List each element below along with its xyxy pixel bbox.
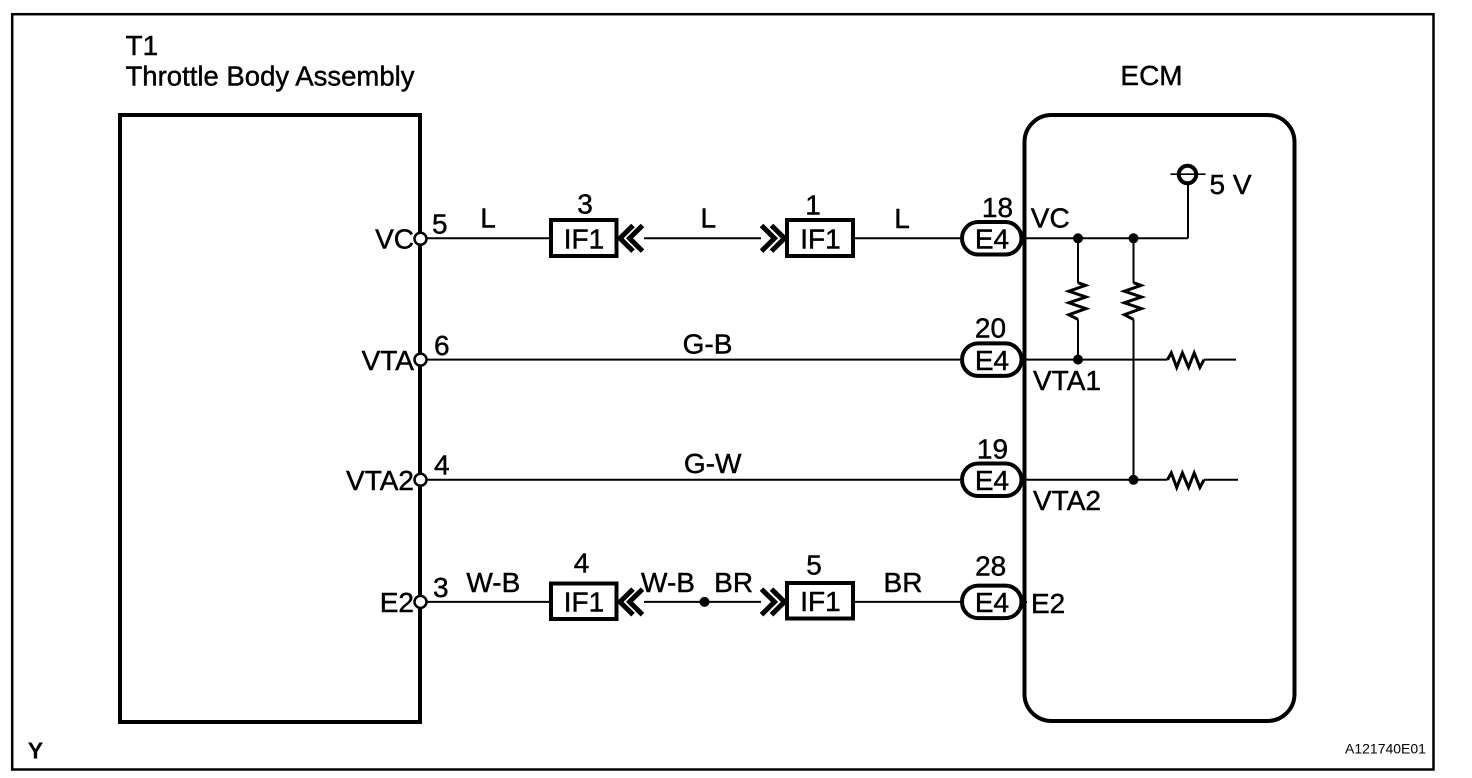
svg-text:5: 5 [806,550,822,581]
svg-text:VC: VC [1031,203,1070,234]
svg-text:4: 4 [434,450,450,481]
svg-text:E4: E4 [975,587,1009,618]
svg-text:G-B: G-B [683,329,733,360]
svg-text:ECM: ECM [1120,60,1182,91]
svg-text:5: 5 [432,209,448,240]
svg-text:BR: BR [714,567,753,598]
svg-text:G-W: G-W [684,448,742,479]
svg-text:E4: E4 [975,224,1009,255]
svg-text:Throttle Body Assembly: Throttle Body Assembly [126,60,415,91]
svg-text:IF1: IF1 [564,223,604,254]
svg-text:20: 20 [975,313,1006,344]
svg-text:E2: E2 [1031,588,1065,619]
svg-text:IF1: IF1 [800,223,840,254]
svg-text:VTA: VTA [362,345,415,376]
svg-text:Y: Y [28,738,44,764]
svg-text:3: 3 [433,572,449,603]
svg-text:A121740E01: A121740E01 [1345,741,1426,757]
svg-text:E4: E4 [975,345,1009,376]
svg-text:E4: E4 [975,465,1009,496]
svg-text:4: 4 [574,548,590,579]
svg-text:BR: BR [884,567,923,598]
svg-text:VTA2: VTA2 [1033,485,1101,516]
svg-text:5 V: 5 V [1210,169,1252,200]
svg-text:3: 3 [577,189,593,220]
svg-text:19: 19 [977,434,1008,465]
svg-text:L: L [894,203,910,234]
svg-text:IF1: IF1 [564,587,604,618]
svg-text:W-B: W-B [466,567,520,598]
svg-text:1: 1 [805,190,821,221]
svg-text:E2: E2 [380,587,414,618]
svg-text:L: L [701,203,717,234]
svg-text:W-B: W-B [641,567,695,598]
svg-text:VTA2: VTA2 [346,465,414,496]
svg-text:28: 28 [975,551,1006,582]
svg-text:VC: VC [375,224,414,255]
svg-text:18: 18 [982,192,1013,223]
svg-text:6: 6 [434,330,450,361]
svg-text:L: L [480,203,496,234]
svg-text:IF1: IF1 [800,586,840,617]
svg-text:VTA1: VTA1 [1033,365,1101,396]
svg-text:T1: T1 [126,30,159,61]
